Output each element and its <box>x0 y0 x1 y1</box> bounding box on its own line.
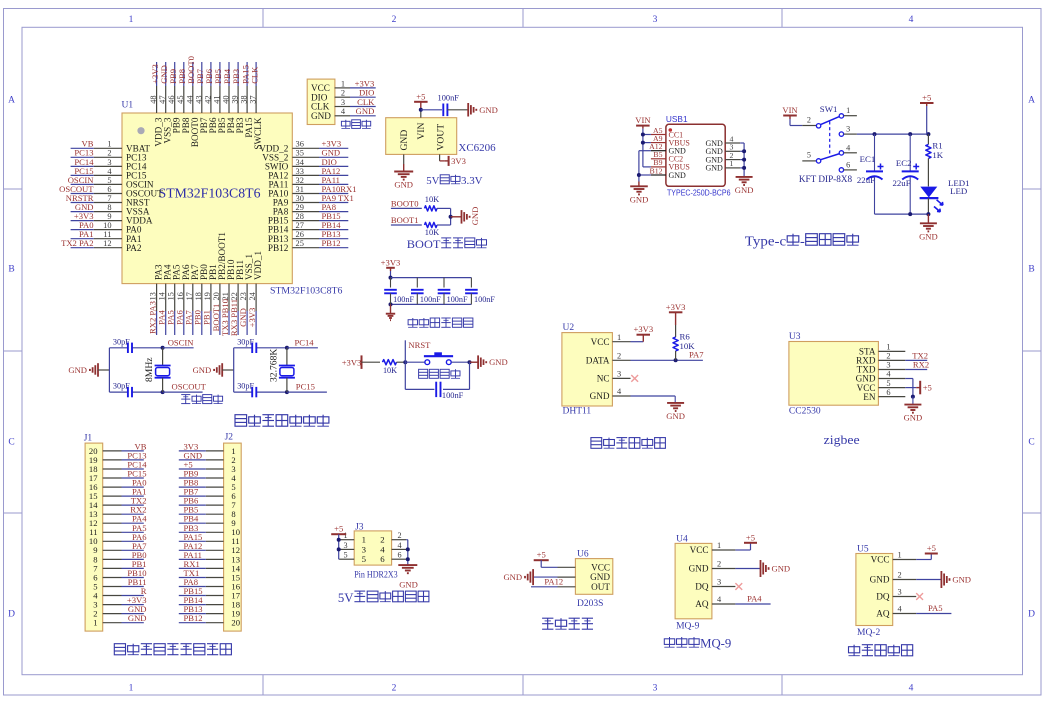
connector J2 header <box>224 433 242 631</box>
wire <box>122 595 144 597</box>
wire <box>639 174 651 176</box>
svg-text:J1: J1 <box>84 434 93 444</box>
net label PA7 <box>689 349 704 359</box>
svg-text:VIN: VIN <box>635 115 651 125</box>
net label PB7 <box>195 68 205 84</box>
wire <box>319 247 348 249</box>
svg-text:10K: 10K <box>383 366 397 375</box>
svg-text:22uF: 22uF <box>893 178 911 188</box>
svg-text:3: 3 <box>653 684 658 694</box>
net label PA12 <box>184 541 203 551</box>
wire <box>179 567 206 569</box>
U1 title <box>159 186 261 201</box>
net label PA7 <box>132 541 147 551</box>
J3 pin 6 <box>380 551 406 565</box>
wire <box>179 504 206 506</box>
J1 pin 10 <box>89 536 122 546</box>
svg-text:27: 27 <box>296 221 304 230</box>
J3 ground label <box>399 579 418 589</box>
junction <box>742 158 746 162</box>
wire <box>122 613 144 615</box>
svg-text:31: 31 <box>296 185 304 194</box>
net label TX1 <box>184 568 200 578</box>
USB1 designator <box>666 114 688 124</box>
wire <box>246 62 248 86</box>
wire <box>391 224 422 226</box>
svg-text:TX2 PA2: TX2 PA2 <box>61 238 93 248</box>
svg-text:3V3: 3V3 <box>451 156 466 166</box>
wire <box>122 504 144 506</box>
wire <box>319 238 348 240</box>
U1 pin 3 PC14 <box>94 158 147 172</box>
U3 pin 2 RXD <box>856 352 905 366</box>
wire <box>174 311 176 335</box>
svg-text:MQ-2: MQ-2 <box>857 628 880 638</box>
U1 designator <box>122 101 134 111</box>
USB GND stub <box>638 182 640 187</box>
U1 pin 47 VSS_3 <box>158 86 173 144</box>
U1 pin 18 PB0 <box>194 264 209 311</box>
wire <box>643 134 651 136</box>
no-connect <box>735 583 742 590</box>
U1 pin 28 PB15 <box>268 212 319 226</box>
J1 pin 15 <box>89 491 122 501</box>
junction <box>926 212 930 216</box>
svg-text:30: 30 <box>296 194 304 203</box>
svg-text:GND: GND <box>705 164 723 173</box>
svg-text:VCC: VCC <box>591 562 610 572</box>
svg-text:28: 28 <box>296 212 304 221</box>
wire <box>255 62 257 86</box>
U1 pin 37 SWCLK <box>249 86 264 150</box>
svg-text:VIN: VIN <box>416 122 427 139</box>
wire <box>156 62 158 86</box>
svg-text:100nF: 100nF <box>393 295 414 304</box>
svg-text:+5: +5 <box>537 550 546 560</box>
svg-text:5: 5 <box>343 551 347 560</box>
net label PB11 <box>128 577 147 587</box>
junction <box>161 390 165 394</box>
crystal 8MHz <box>144 348 171 392</box>
wire <box>122 558 144 560</box>
wire <box>98 369 109 371</box>
wire <box>179 531 206 533</box>
svg-text:30pF: 30pF <box>113 382 130 391</box>
net label RX2 PA3 <box>147 301 157 334</box>
sensor U4 MQ-9 body <box>675 543 712 618</box>
wire <box>451 361 469 363</box>
wire <box>338 548 341 550</box>
svg-text:+5: +5 <box>416 91 425 101</box>
svg-text:2: 2 <box>886 352 890 361</box>
svg-text:1: 1 <box>846 106 850 115</box>
net label RX3 PB11 <box>229 299 239 336</box>
R6 wire <box>675 316 677 338</box>
wire <box>122 540 144 542</box>
net label GND <box>75 202 94 212</box>
svg-text:EC1: EC1 <box>860 154 876 164</box>
svg-text:EN: EN <box>863 392 876 402</box>
junction <box>403 360 407 364</box>
wire <box>540 560 542 567</box>
svg-text:3: 3 <box>107 158 111 167</box>
net label TX2 <box>131 496 147 506</box>
capacitor 30pF bottom <box>237 382 256 398</box>
svg-text:10K: 10K <box>425 195 439 204</box>
op-amp U1 body <box>122 113 292 284</box>
svg-text:PB12: PB12 <box>184 613 203 623</box>
regulator GND pin <box>403 154 405 171</box>
J2 pin 13 <box>206 554 240 564</box>
wire <box>319 156 348 158</box>
net label PA15 <box>240 65 250 84</box>
USB1 pin 3 GND <box>705 143 740 157</box>
wire <box>165 311 167 335</box>
wire <box>338 534 340 559</box>
net label PB8 <box>177 69 187 84</box>
wire <box>391 303 472 305</box>
net label PB6 <box>184 496 200 506</box>
svg-text:26: 26 <box>296 230 304 239</box>
J3 pin 2 <box>380 531 406 545</box>
svg-text:J3: J3 <box>355 522 364 532</box>
wire <box>926 106 928 134</box>
U1 pin 45 PB8 <box>176 86 191 133</box>
J1 pin 17 <box>89 473 122 483</box>
wire <box>390 271 392 278</box>
caption BOOT circuit <box>407 237 487 251</box>
U3 pin 4 GND <box>856 370 906 384</box>
net label PC14 <box>127 460 147 470</box>
U1 pin 41 PB5 <box>212 86 227 133</box>
net label +3V3 <box>74 211 94 221</box>
power port VIN <box>635 115 651 129</box>
wire <box>447 109 468 111</box>
net label BOOT0 <box>186 56 196 84</box>
wire <box>228 62 230 86</box>
J1 pin 18 <box>89 464 122 474</box>
wire <box>256 347 287 349</box>
wire <box>179 613 206 615</box>
wire <box>319 220 348 222</box>
net label PB14 <box>184 595 204 605</box>
wire <box>122 495 144 497</box>
capacitor EC2 22uF <box>893 134 920 214</box>
svg-text:U6: U6 <box>577 550 589 560</box>
power port 3V3 <box>445 156 466 166</box>
J2 pin 3 <box>206 464 236 474</box>
wire <box>109 391 128 393</box>
wire <box>122 549 144 551</box>
svg-text:5: 5 <box>362 554 367 564</box>
net label PA7 <box>184 310 194 325</box>
net label OSCIN <box>168 337 195 347</box>
wire <box>192 62 194 86</box>
svg-text:+3V3: +3V3 <box>381 257 401 267</box>
U1 pin 2 PC13 <box>94 149 147 163</box>
svg-text:7: 7 <box>107 194 111 203</box>
svg-text:GND: GND <box>772 564 791 574</box>
svg-text:U4: U4 <box>676 534 688 544</box>
U5 pin 2 GND <box>870 571 917 585</box>
wire <box>179 558 206 560</box>
U1 part name <box>270 286 343 297</box>
sensor U2 DHT11 body <box>562 333 613 406</box>
capacitor 100nF input <box>438 94 460 116</box>
U1 pin 10 PA0 <box>94 221 142 235</box>
svg-text:5: 5 <box>886 379 890 388</box>
wire <box>71 193 94 195</box>
regulator XC6206 body <box>386 118 457 155</box>
wire <box>916 579 941 581</box>
net label PB6 <box>204 68 214 84</box>
net label CLK <box>357 97 375 107</box>
J2 pin 7 <box>206 500 237 510</box>
svg-text:10K: 10K <box>680 341 696 351</box>
U5 part name <box>857 628 880 638</box>
net label GND <box>128 613 147 623</box>
wire <box>405 388 434 390</box>
wire <box>735 568 760 570</box>
U1 pin 36 VDD_2 <box>259 140 319 154</box>
caption reset circuit <box>419 369 460 378</box>
wire <box>469 362 471 389</box>
net label PB1 <box>202 310 212 325</box>
svg-text:8: 8 <box>107 203 111 212</box>
wire <box>450 208 452 225</box>
power port +5 <box>744 532 757 543</box>
svg-text:9: 9 <box>107 212 111 221</box>
U1 pin 15 PA5 <box>167 264 182 311</box>
svg-text:CLK: CLK <box>249 66 259 84</box>
download port pin 3 CLK <box>311 98 350 112</box>
svg-text:44: 44 <box>185 95 194 104</box>
wire <box>179 595 206 597</box>
power port GND <box>761 560 791 577</box>
svg-text:A: A <box>8 96 15 106</box>
wire <box>71 183 94 185</box>
svg-text:3: 3 <box>617 370 621 379</box>
net label PB0 <box>132 550 147 560</box>
wire <box>642 129 644 167</box>
svg-text:20: 20 <box>231 618 240 628</box>
J2 pin 10 <box>206 527 240 537</box>
svg-text:10K: 10K <box>425 228 439 237</box>
net label PB3 <box>231 69 241 84</box>
download port pin 4 GND <box>311 107 350 121</box>
wire <box>338 539 341 541</box>
svg-text:25: 25 <box>296 239 304 248</box>
net label GND <box>159 65 169 84</box>
wire <box>470 361 479 363</box>
svg-text:3: 3 <box>717 578 721 587</box>
U2 GND stub <box>674 396 676 403</box>
svg-text:D: D <box>8 610 15 620</box>
J2 pin 14 <box>206 563 241 573</box>
U1 pin 35 VSS_2 <box>262 149 319 163</box>
J2 pin 19 <box>206 609 240 619</box>
wire <box>174 62 176 86</box>
net label +3V3 <box>355 78 375 88</box>
connector J3 body <box>354 522 391 565</box>
wire <box>905 387 916 389</box>
wire <box>916 559 931 561</box>
net label PB7 <box>184 487 200 497</box>
svg-text:GND: GND <box>630 194 649 204</box>
caption download port <box>341 120 370 129</box>
switch SW1 <box>802 106 857 172</box>
J2 pin 9 <box>206 518 236 528</box>
wire <box>319 229 348 231</box>
U1 pin 17 PA7 <box>185 264 200 311</box>
U3 part name <box>789 407 821 417</box>
U1 pin 48 VDD_3 <box>149 86 164 147</box>
wire <box>443 388 470 390</box>
junction <box>674 358 678 362</box>
J2 pin 15 <box>206 572 240 582</box>
download port pin 2 DIO <box>311 89 350 103</box>
net label PA15 <box>184 532 203 542</box>
U1 pin 13 PA3 <box>149 264 164 311</box>
svg-text:5V: 5V <box>338 590 354 605</box>
crystal 32.768K <box>268 348 295 392</box>
net label DIO <box>322 157 337 167</box>
wire <box>132 347 163 349</box>
net label PB9 <box>168 69 178 84</box>
svg-text:A: A <box>1028 96 1035 106</box>
J2 pin 11 <box>206 536 240 546</box>
net label +3V3 <box>127 595 147 605</box>
U1 pin 32 PA11 <box>269 176 319 190</box>
wire <box>179 450 206 452</box>
wire <box>404 362 406 389</box>
U6 pin 1 VCC <box>558 562 611 572</box>
svg-text:3: 3 <box>846 125 850 134</box>
wire <box>122 622 144 624</box>
net label GND <box>238 308 248 327</box>
svg-text:2: 2 <box>717 560 721 569</box>
svg-text:30pF: 30pF <box>113 337 130 346</box>
ground <box>735 177 754 195</box>
junction <box>926 132 930 136</box>
svg-text:BOOT: BOOT <box>407 237 441 251</box>
svg-text:VCC: VCC <box>871 555 890 565</box>
svg-text:2: 2 <box>392 15 397 25</box>
net label OSCIN <box>68 175 95 185</box>
svg-text:MQ-9: MQ-9 <box>700 637 731 651</box>
USB1 part name <box>667 188 731 197</box>
svg-text:STM32F103C8T6: STM32F103C8T6 <box>159 186 261 201</box>
J1 pin 13 <box>89 509 122 519</box>
wire <box>163 347 194 349</box>
U1 pin 26 PB13 <box>268 230 319 244</box>
svg-text:3.3V: 3.3V <box>461 175 483 187</box>
sensor U6 D203S body <box>575 559 612 595</box>
svg-text:Type-c: Type-c <box>745 235 786 250</box>
svg-text:1: 1 <box>129 15 134 25</box>
power port +3V3 <box>666 302 686 316</box>
J2 pin 12 <box>206 545 240 555</box>
U1 pin 9 VDDA <box>94 212 153 226</box>
net label PA6 <box>175 310 185 325</box>
J1 pin 20 <box>89 446 122 456</box>
junction <box>742 149 746 153</box>
net label OSCOUT <box>59 184 94 194</box>
svg-text:46: 46 <box>167 95 176 103</box>
svg-text:8MHz: 8MHz <box>144 357 155 382</box>
LED LED1 <box>920 178 970 214</box>
wire <box>740 142 744 144</box>
J1 pin 6 <box>93 572 121 582</box>
junction <box>449 215 453 219</box>
junction <box>285 390 289 394</box>
wire <box>71 202 94 204</box>
U6 pin 2 GND <box>558 572 611 582</box>
svg-text:GND: GND <box>193 365 212 375</box>
svg-text:U3: U3 <box>789 332 801 342</box>
ground <box>386 314 395 321</box>
U1 pin 29 PA8 <box>273 203 319 217</box>
wire <box>905 369 927 371</box>
resistor R? 10K BOOT1 <box>425 222 440 236</box>
XC6206 pin names <box>399 122 446 150</box>
junction <box>637 173 641 177</box>
USB1 pin 4 GND <box>705 134 740 148</box>
wire <box>179 549 206 551</box>
svg-text:zigbee: zigbee <box>824 433 860 447</box>
wire <box>179 477 206 479</box>
svg-text:2: 2 <box>392 684 397 694</box>
U6 GND wire <box>533 576 557 578</box>
net label GND <box>128 604 147 614</box>
sensor U5 MQ-2 body <box>856 554 893 626</box>
wire <box>255 311 257 335</box>
net label OSCOUT <box>172 382 207 392</box>
svg-text:GND: GND <box>590 572 610 582</box>
wire <box>122 586 144 588</box>
svg-text:GND: GND <box>356 106 375 116</box>
wire <box>531 586 558 588</box>
J2 pin 2 <box>206 455 236 465</box>
junction <box>406 557 410 561</box>
svg-text:-: - <box>800 235 805 250</box>
junction <box>908 212 912 216</box>
U1 pin 22 PB11 <box>230 260 245 311</box>
net label +3V3 <box>247 308 257 328</box>
wire <box>350 87 376 89</box>
J2 pin 1 <box>206 446 236 456</box>
wire <box>404 340 406 362</box>
SW1 part name <box>799 174 853 184</box>
svg-text:13: 13 <box>149 292 158 300</box>
net label VB <box>135 441 147 451</box>
net label PA4 <box>157 310 167 325</box>
net label PA1 <box>79 229 94 239</box>
J2 pin 20 <box>206 618 240 628</box>
wire <box>437 224 451 226</box>
power port GND <box>193 363 223 377</box>
wire <box>233 348 235 392</box>
svg-text:SWCLK: SWCLK <box>253 117 263 150</box>
wire <box>319 147 348 149</box>
power port +5 <box>920 93 934 107</box>
power port +3V3 <box>381 257 401 271</box>
U1 pin 1 VBAT <box>94 140 151 154</box>
ground <box>630 186 649 204</box>
svg-text:33: 33 <box>296 167 304 176</box>
USB1 pin B9 VBUS <box>651 158 690 172</box>
svg-text:2: 2 <box>807 115 811 124</box>
